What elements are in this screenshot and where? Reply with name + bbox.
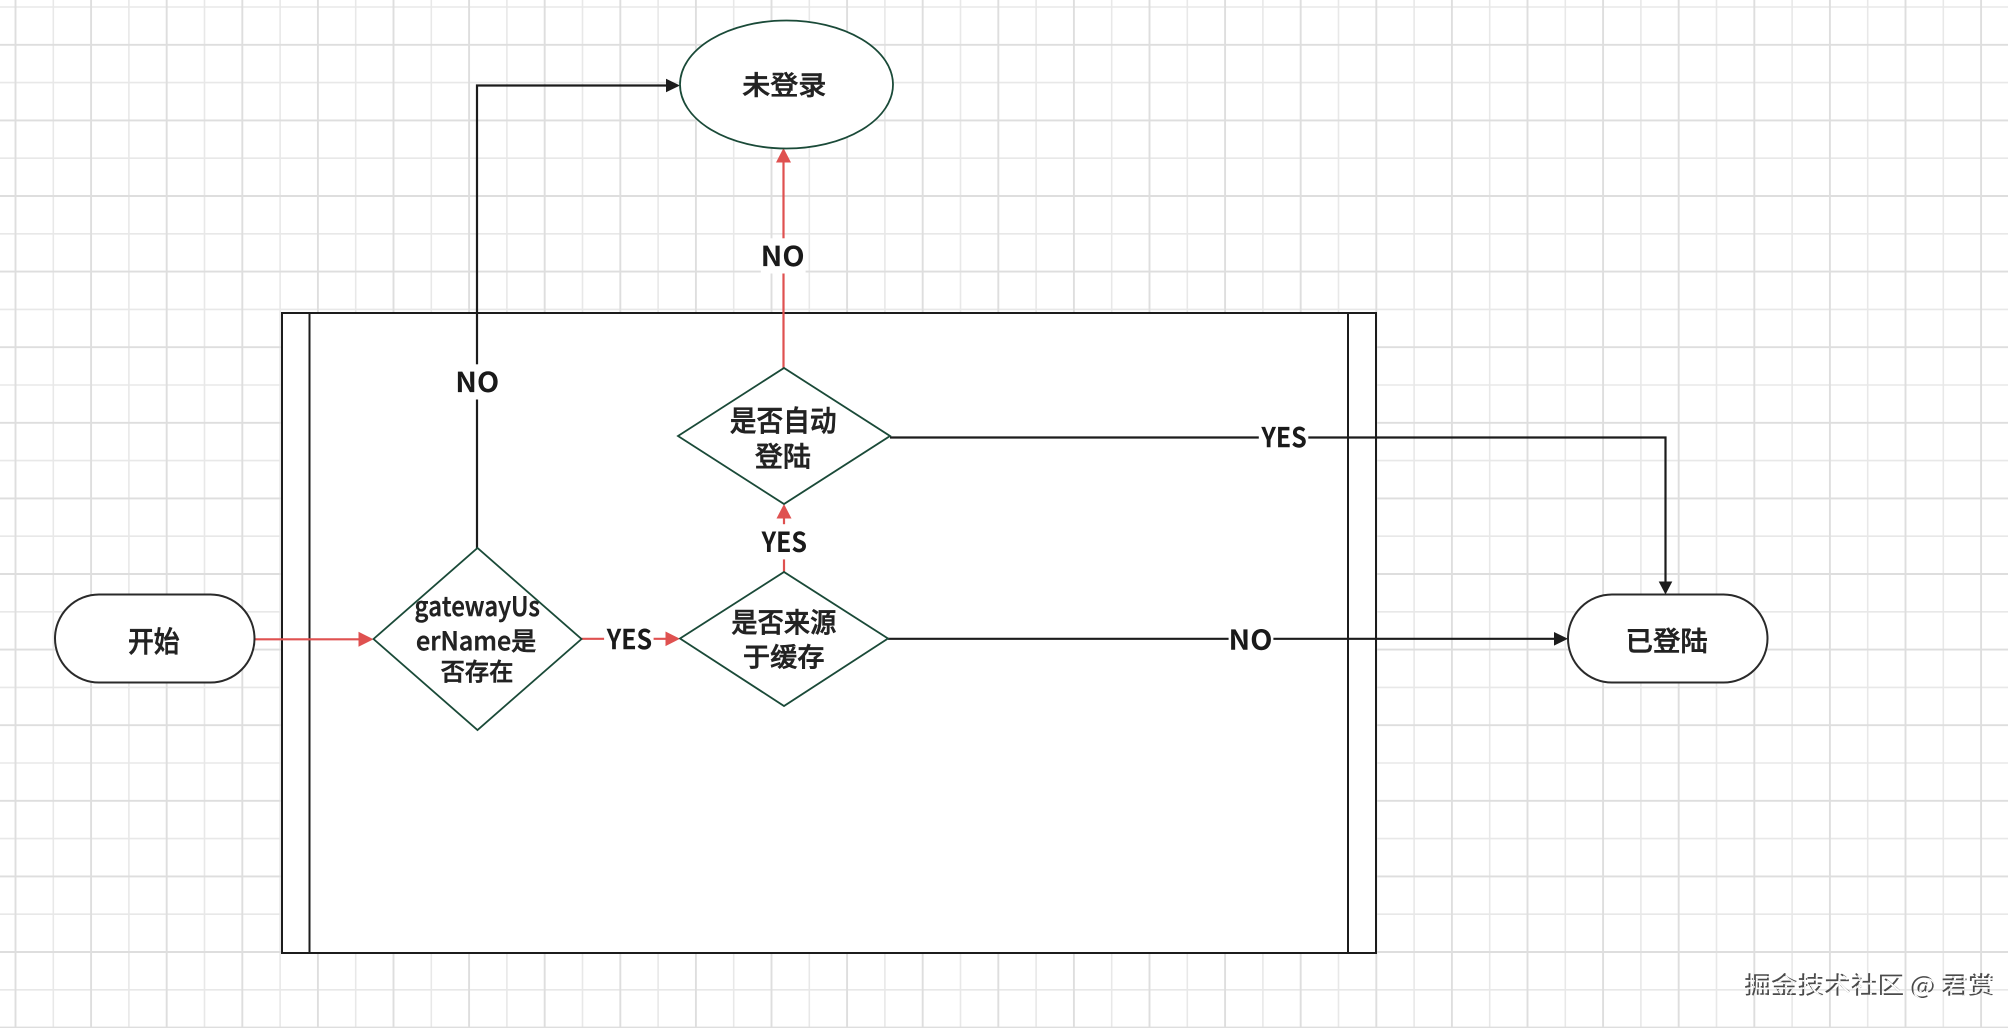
stadium node 开始 bbox=[55, 595, 255, 683]
wire: diamond3 YES right and down to 已登陆 (black) bbox=[890, 438, 1672, 595]
edge label NO (d1->ellipse) bbox=[455, 364, 500, 399]
label line1 是否自动 bbox=[731, 406, 836, 433]
wire: diamond1 YES to diamond2 (red) bbox=[582, 632, 681, 647]
label line1 是否来源 bbox=[732, 609, 836, 635]
wire: diamond2 YES up to diamond3 (red) bbox=[777, 504, 792, 572]
edge label YES (d2->d3) bbox=[759, 524, 809, 559]
edge label NO (d2->done) bbox=[1229, 622, 1274, 657]
label 未登录 bbox=[743, 72, 825, 97]
edge label YES (d1->d2) bbox=[604, 621, 654, 656]
wire: 开始 to diamond1 (red) bbox=[255, 632, 374, 647]
label line2 于缓存 bbox=[744, 644, 823, 669]
ellipse node 未登录 bbox=[680, 21, 893, 149]
stadium node 已登陆 bbox=[1568, 595, 1768, 683]
diamond 是否来源于缓存 bbox=[680, 572, 888, 706]
label line1 gatewayUs bbox=[416, 596, 539, 622]
wire: diamond2 NO right to 已登陆 (black) bbox=[888, 632, 1568, 646]
wire: diamond1 NO up and right to 未登录 (black) bbox=[477, 79, 680, 548]
diamond gatewayUserName是否存在 bbox=[374, 548, 582, 730]
label 已登陆 bbox=[1628, 628, 1707, 653]
container frame (white panel, doubled side borders) bbox=[282, 313, 1376, 953]
label line2 erName是 bbox=[417, 630, 535, 653]
edge label YES (d3->done) bbox=[1259, 420, 1309, 455]
label line3 否存在 bbox=[441, 660, 512, 683]
edge label NO (d3->ellipse) bbox=[761, 238, 806, 273]
wire: diamond3 NO up to 未登录 (red) bbox=[776, 148, 791, 368]
label line2 登陆 bbox=[755, 443, 809, 469]
label 开始 bbox=[129, 627, 179, 654]
diamond 是否自动登陆 bbox=[678, 368, 890, 504]
